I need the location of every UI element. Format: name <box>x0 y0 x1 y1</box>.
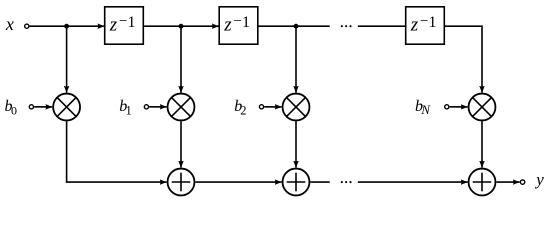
svg-text:−: − <box>420 13 428 29</box>
label bN <box>415 98 431 117</box>
svg-text:x: x <box>5 14 14 34</box>
multiplier M4 <box>469 94 496 121</box>
wire b2 to multiplier M3 <box>264 106 281 108</box>
svg-text:−: − <box>119 13 127 29</box>
input terminal circle b2 <box>259 105 263 109</box>
delay block U2 z^-1 <box>219 7 258 44</box>
svg-text:0: 0 <box>11 104 17 118</box>
wire bN to multiplier M4 <box>450 106 468 108</box>
svg-text:2: 2 <box>240 104 246 118</box>
wire tap 1 down to multiplier M1 <box>66 26 68 93</box>
output terminal circle y <box>520 180 524 184</box>
svg-text:1: 1 <box>128 14 136 31</box>
delay block UN z^-1 <box>406 7 445 44</box>
wire delay block U2 to ellipsis <box>259 25 330 27</box>
svg-text:N: N <box>420 102 431 117</box>
junction node 2 <box>179 24 184 29</box>
wire delay block U1 to delay block U2 <box>144 25 219 27</box>
wire tap 2 down to multiplier M2 <box>180 26 182 93</box>
input terminal circle x <box>25 24 29 28</box>
wire b1 to multiplier M2 <box>149 106 166 108</box>
svg-text:1: 1 <box>429 14 437 31</box>
adder A3 <box>469 169 496 196</box>
input terminal circle b0 <box>29 105 33 109</box>
svg-text:1: 1 <box>126 104 132 118</box>
svg-text:−: − <box>234 13 242 29</box>
adder A1 <box>168 169 195 196</box>
junction node 1 <box>64 24 69 29</box>
multiplier M3 <box>283 94 310 121</box>
wire delay block UN output, corner down to multiplier M4 <box>445 26 482 93</box>
input terminal circle bN <box>445 105 449 109</box>
multiplier M2 <box>168 94 195 121</box>
ellipsis dots top rail <box>341 25 352 27</box>
wire adder A1 to adder A2 <box>195 181 281 183</box>
wire multiplier M2 output to adder A1 <box>180 121 182 167</box>
wire multiplier M4 output to adder A3 <box>481 121 483 167</box>
wire multiplier M1 output, corner, to adder A1 <box>67 121 167 182</box>
wire adder A3 to output y <box>496 181 519 183</box>
wire multiplier M3 output to adder A2 <box>295 121 297 167</box>
wire b0 to multiplier M1 <box>34 106 52 108</box>
svg-text:y: y <box>534 170 544 189</box>
label b1 <box>119 98 132 118</box>
input terminal circle b1 <box>144 105 148 109</box>
multiplier M1 <box>53 94 80 121</box>
adder A2 <box>283 169 310 196</box>
ellipsis dots bottom rail <box>341 181 352 183</box>
wire tap 3 down to multiplier M3 <box>295 26 297 93</box>
wire ellipsis to adder A3 <box>358 181 468 183</box>
label b2 <box>234 98 246 118</box>
svg-text:z: z <box>410 15 419 36</box>
wire ellipsis to delay block UN <box>358 25 405 27</box>
svg-text:z: z <box>109 15 118 36</box>
junction node 3 <box>294 24 299 29</box>
wire adder A2 to ellipsis <box>310 181 329 183</box>
svg-text:z: z <box>223 15 232 36</box>
wire x input to delay block U1 <box>30 25 105 27</box>
label b0 <box>5 98 18 118</box>
svg-text:1: 1 <box>242 14 250 31</box>
delay block U1 z^-1 <box>105 7 144 44</box>
